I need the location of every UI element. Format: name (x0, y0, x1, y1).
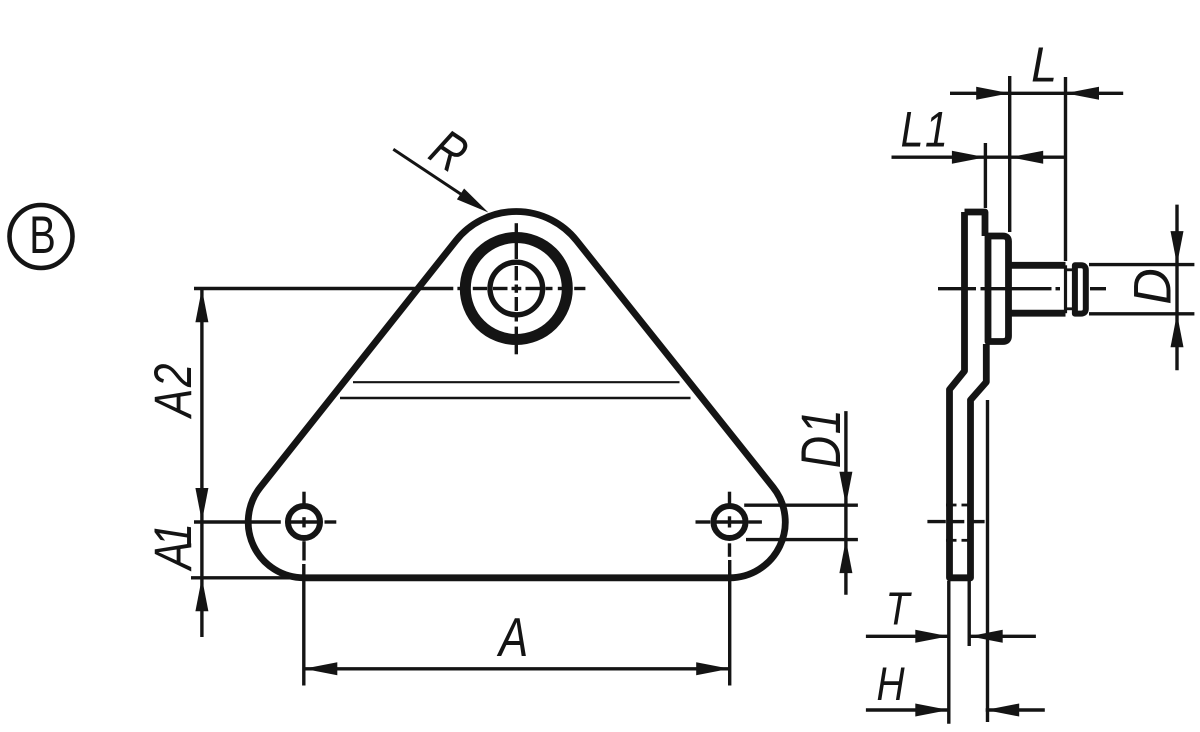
side view flange (988, 236, 1009, 342)
dimension A2/A1 line (200, 289, 203, 637)
svg-text:A2: A2 (145, 362, 204, 420)
right hole (714, 506, 746, 538)
dimension A line (304, 667, 730, 670)
bend line upper (353, 381, 680, 383)
view label B (10, 205, 73, 268)
svg-text:D1: D1 (789, 408, 852, 468)
label A (496, 606, 528, 668)
A extension lines (302, 564, 305, 686)
svg-text:A: A (496, 606, 528, 668)
svg-text:R: R (420, 119, 478, 185)
label L (1031, 38, 1057, 92)
A1 bottom extension line (191, 576, 302, 579)
D extension lines (1089, 263, 1194, 266)
side extension lines bottom (947, 581, 950, 724)
side view hidden hole edges (946, 504, 957, 507)
left hole (288, 506, 320, 538)
dimension D1 line (844, 411, 847, 595)
top hole centerline vertical (515, 223, 518, 235)
side view plate (950, 212, 987, 578)
radius leader R (393, 149, 478, 205)
svg-text:L1: L1 (901, 102, 950, 158)
svg-text:A1: A1 (145, 526, 204, 572)
dimension L1 line (892, 155, 1065, 158)
side extension lines top (984, 143, 987, 208)
svg-text:D: D (1122, 268, 1181, 304)
label T (886, 584, 913, 636)
stud groove (1066, 268, 1075, 271)
top hole counterbore ring (465, 238, 567, 340)
label R (420, 119, 478, 185)
svg-text:L: L (1031, 38, 1057, 92)
left hole centerline vertical (302, 492, 305, 504)
right hole centerline vertical (728, 492, 731, 506)
bend line lower (340, 397, 691, 400)
label D (1122, 268, 1181, 304)
label L1 (901, 102, 950, 158)
svg-text:T: T (886, 584, 913, 636)
svg-text:B: B (29, 205, 56, 264)
dimension D line (1175, 205, 1178, 371)
side view stud (1009, 262, 1066, 269)
stud end ring (1075, 265, 1086, 313)
label H (876, 658, 905, 710)
dimension T lines (866, 635, 949, 638)
label D1 (789, 408, 852, 468)
top hole centerline horizontal / A2 extension (194, 287, 453, 290)
top hole inner circle (490, 262, 543, 315)
dimension H lines (866, 708, 949, 711)
label A1 (145, 526, 204, 572)
side view bottom-hole centerline (927, 520, 945, 523)
dimension L line (950, 92, 1123, 95)
plate outline (front view) (248, 211, 785, 577)
side view stud centerline (938, 287, 976, 290)
left hole centerline horizontal (194, 520, 281, 523)
right hole centerline horizontal (696, 520, 711, 523)
label A2 (145, 362, 204, 420)
svg-text:H: H (876, 658, 905, 710)
D1 extension lines (744, 504, 858, 507)
